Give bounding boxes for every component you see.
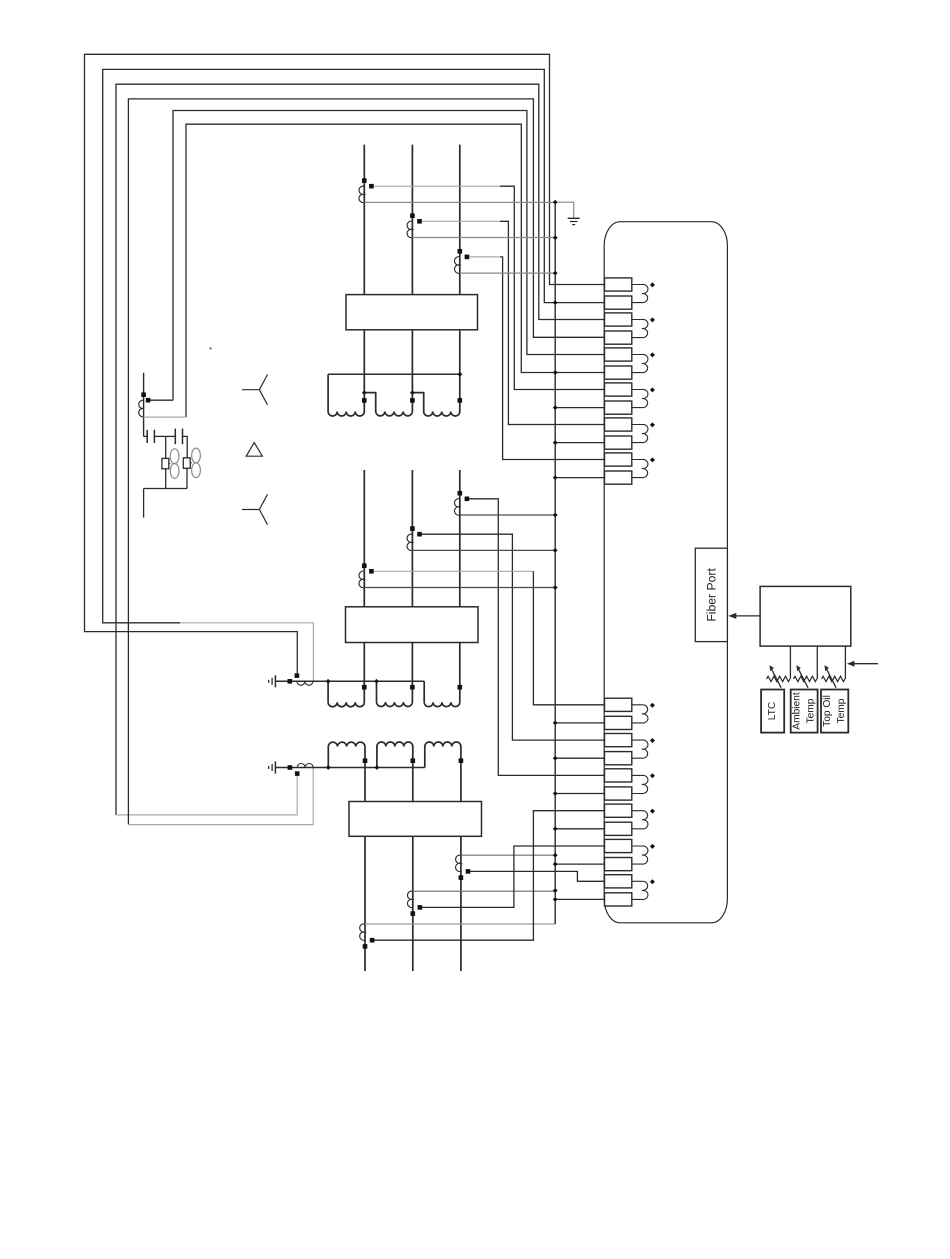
svg-text:Fiber Port: Fiber Port — [704, 568, 718, 622]
svg-text:Top Oil: Top Oil — [822, 695, 833, 727]
svg-text:Ambient: Ambient — [792, 692, 803, 730]
svg-text:LTC: LTC — [767, 702, 778, 721]
svg-text:Temp: Temp — [836, 698, 847, 723]
svg-text:Temp: Temp — [806, 698, 817, 723]
